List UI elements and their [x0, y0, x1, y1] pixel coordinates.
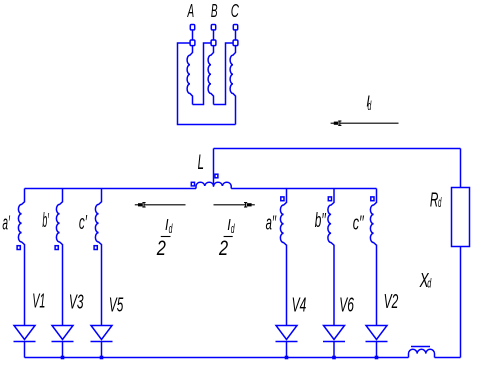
wire center tap up — [213, 149, 215, 187]
node c' polarity square — [94, 246, 97, 250]
transformer primary winding phase C — [230, 46, 235, 125]
svg-text:d: d — [169, 222, 173, 236]
transformer secondary winding a' — [18, 189, 24, 326]
svg-text:V2: V2 — [384, 291, 399, 313]
transformer primary winding phase A — [187, 46, 192, 105]
junction a'' cathode bus — [285, 356, 289, 360]
transformer secondary winding b'' — [328, 189, 334, 326]
svg-text:L: L — [198, 151, 204, 174]
diode V3 — [52, 326, 74, 358]
svg-text:B: B — [211, 0, 218, 21]
node L tap polarity square — [215, 174, 218, 178]
diode V4 — [276, 326, 298, 358]
svg-text:d: d — [231, 222, 235, 236]
node B terminal — [211, 25, 215, 30]
label Id — [366, 93, 372, 113]
svg-text:d: d — [427, 275, 431, 290]
diode V6 — [323, 326, 345, 358]
svg-text:b′: b′ — [42, 210, 49, 232]
node A junction square — [190, 40, 195, 46]
wire below Rd — [460, 247, 462, 358]
svg-text:c′′: c′′ — [353, 212, 365, 234]
node C terminal — [233, 25, 237, 30]
svg-text:V3: V3 — [69, 292, 84, 314]
node C junction square — [233, 40, 238, 46]
wire secondary bus left — [25, 188, 197, 190]
label Id/2 right fraction — [218, 217, 235, 260]
node L left polarity square — [191, 182, 194, 186]
svg-text:V6: V6 — [339, 295, 354, 317]
wire — [192, 30, 194, 40]
label Rd — [430, 189, 442, 211]
svg-text:c′: c′ — [79, 212, 88, 234]
wire delta B-input to A-end — [193, 43, 212, 105]
junction b' cathode bus — [61, 356, 65, 360]
diode V5 — [91, 326, 113, 358]
label Id/2 left fraction — [156, 217, 173, 260]
transformer secondary winding a'' — [280, 189, 286, 326]
wire right vertical into Rd — [460, 149, 462, 188]
arrow Id/2 right pointing right — [214, 202, 255, 207]
inductor L interphase reactor — [196, 182, 231, 188]
label Xd — [419, 270, 432, 292]
wire top horizontal to load — [214, 148, 461, 150]
diode V2 — [366, 326, 388, 358]
wire bottom bus — [25, 357, 409, 359]
svg-text:C: C — [231, 0, 240, 21]
svg-text:2: 2 — [156, 237, 166, 260]
wire delta A-input to C-end — [178, 43, 236, 125]
transformer secondary winding c'' — [370, 189, 376, 326]
diode V1 — [14, 326, 36, 358]
svg-text:b′′: b′′ — [315, 210, 327, 232]
node A terminal — [190, 25, 194, 30]
node b' polarity square — [55, 246, 58, 250]
svg-text:d: d — [368, 99, 372, 113]
wire secondary bus right — [231, 188, 376, 190]
svg-text:a′′: a′′ — [266, 213, 277, 235]
svg-text:V5: V5 — [109, 294, 124, 316]
junction c'' cathode bus — [375, 356, 379, 360]
arrow Id pointing left — [331, 121, 399, 126]
wire — [235, 30, 237, 40]
transformer secondary winding b' — [56, 189, 62, 326]
svg-text:V4: V4 — [292, 295, 307, 317]
transformer primary winding phase B — [208, 46, 213, 105]
inductor Xd smoothing choke — [409, 347, 435, 358]
node b'' polarity square — [328, 197, 331, 201]
svg-text:d: d — [438, 195, 442, 210]
wire delta C-input to B-end — [214, 43, 234, 105]
node a' polarity square — [17, 246, 20, 250]
node B junction square — [211, 40, 216, 46]
svg-text:A: A — [187, 0, 194, 21]
resistor Rd — [452, 188, 470, 247]
svg-text:a′: a′ — [2, 213, 10, 235]
svg-text:2: 2 — [218, 237, 228, 260]
junction b'' cathode bus — [332, 356, 336, 360]
wire — [213, 30, 215, 40]
junction c' cathode bus — [100, 356, 104, 360]
arrow Id/2 left pointing left — [135, 202, 186, 207]
svg-text:V1: V1 — [32, 291, 45, 313]
node c'' polarity square — [371, 197, 374, 201]
wire bottom right — [435, 357, 461, 359]
transformer secondary winding c' — [95, 189, 101, 326]
node a'' polarity square — [281, 197, 284, 201]
